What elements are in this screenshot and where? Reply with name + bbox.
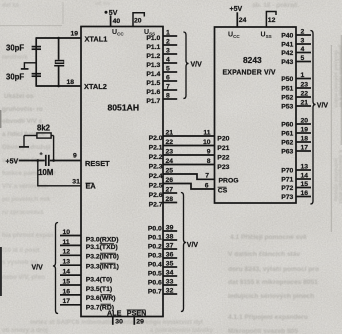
svg-text:30pF: 30pF xyxy=(6,73,24,82)
pin 27 P2.6 stub xyxy=(163,192,177,194)
svg-text:P51: P51 xyxy=(281,85,293,92)
pin 29 PSEN xyxy=(133,317,135,325)
svg-text:P60: P60 xyxy=(281,121,293,128)
svg-text:17: 17 xyxy=(63,298,71,305)
pin 36 P0.3 stub xyxy=(163,257,177,259)
svg-text:8243: 8243 xyxy=(243,55,262,65)
svg-text:ledujících sériových pinech: ledujících sériových pinech xyxy=(228,293,314,300)
svg-text:t10 i8 il posit: t10 i8 il posit xyxy=(2,247,39,254)
svg-text:doru 8243, výlačí pomocí pro: doru 8243, výlačí pomocí pro xyxy=(228,266,319,273)
pin 34 P0.5 stub xyxy=(163,275,177,277)
pin 4 P1.3 stub xyxy=(163,62,177,64)
svg-text:23: 23 xyxy=(301,82,309,89)
svg-text:16: 16 xyxy=(301,190,309,197)
svg-text:1: 1 xyxy=(301,72,305,79)
svg-text:6: 6 xyxy=(205,182,209,189)
pin 15 P72 stub xyxy=(296,187,311,189)
svg-text:9: 9 xyxy=(73,153,77,160)
svg-text:P62: P62 xyxy=(281,139,293,146)
svg-text:21: 21 xyxy=(166,129,174,136)
pin 38 P0.1 stub xyxy=(163,239,177,241)
svg-text:+5V: +5V xyxy=(230,6,243,13)
wire RESET net (U1 pin 9) xyxy=(19,160,45,162)
svg-text:23: 23 xyxy=(166,148,174,155)
svg-text:P70: P70 xyxy=(281,167,293,174)
svg-text:nevtherk: nevtherk xyxy=(2,54,28,61)
svg-text:P2.3: P2.3 xyxy=(149,164,163,171)
svg-text:3: 3 xyxy=(166,47,170,54)
svg-text:P2.4: P2.4 xyxy=(149,173,163,180)
svg-text:P3.0(RXD): P3.0(RXD) xyxy=(86,237,119,244)
svg-text:P71: P71 xyxy=(281,176,293,183)
pin 16 P73 stub xyxy=(296,196,311,198)
svg-text:jednotlivé vývody: jednotlivé vývody xyxy=(333,157,339,202)
svg-text:4: 4 xyxy=(301,46,305,53)
brace P0 port group xyxy=(181,193,186,312)
svg-text:P1.3: P1.3 xyxy=(146,62,160,69)
pin 13 P70 stub xyxy=(296,169,311,171)
svg-text:26: 26 xyxy=(166,177,174,184)
pin 18 P62 stub xyxy=(296,141,311,143)
svg-text:P0.5: P0.5 xyxy=(148,271,162,278)
svg-text:P21: P21 xyxy=(217,145,229,152)
svg-text:P3.3(INT1): P3.3(INT1) xyxy=(86,264,119,271)
svg-text:P2.0: P2.0 xyxy=(149,135,163,142)
pin 1 P50 stub xyxy=(296,78,311,80)
svg-text:2: 2 xyxy=(301,29,305,36)
ground symbol at C1/C2 junction xyxy=(24,63,36,69)
svg-text:PROG: PROG xyxy=(219,178,239,185)
svg-text:13: 13 xyxy=(63,259,71,266)
svg-text:P43: P43 xyxy=(281,59,293,66)
svg-text:38: 38 xyxy=(166,234,174,241)
svg-text:gruňovčís- ro: gruňovčís- ro xyxy=(2,106,43,113)
capacitor C3 10M xyxy=(45,155,47,166)
svg-text:P0.1: P0.1 xyxy=(148,235,162,242)
svg-text:9: 9 xyxy=(207,148,211,155)
IC U2 8243 body xyxy=(215,27,297,203)
svg-text:37: 37 xyxy=(166,243,174,250)
svg-text:nebo V/V, přen: nebo V/V, přen xyxy=(2,274,45,281)
svg-text:P3.4(T0): P3.4(T0) xyxy=(86,277,112,284)
svg-text:8: 8 xyxy=(166,92,170,99)
svg-text:P0.6: P0.6 xyxy=(148,280,162,287)
svg-text:33: 33 xyxy=(166,279,174,286)
svg-text:a pokračování tabulky: a pokračování tabulky xyxy=(150,328,214,334)
svg-text:20: 20 xyxy=(301,118,309,125)
svg-text:34: 34 xyxy=(166,270,174,277)
svg-text:ob snovy a droj: ob snovy a droj xyxy=(2,327,48,334)
svg-text:13: 13 xyxy=(301,164,309,171)
pin 22 P52 stub xyxy=(296,96,311,98)
ground symbol at R1 xyxy=(23,136,25,147)
svg-text:po povelech mik: po povelech mik xyxy=(2,196,51,203)
wire U1 P2.4 (pin 25) to U2 PROG (pin 7) xyxy=(163,174,215,179)
pin 7 P1.6 stub xyxy=(163,89,177,91)
pin 16 P3.6 stub xyxy=(60,294,81,296)
pin 35 P0.4 stub xyxy=(163,266,177,268)
ground symbol at U1 pin 20 xyxy=(133,13,144,27)
pin 39 P0.0 stub xyxy=(163,230,177,232)
pin 21 P53 stub xyxy=(296,105,311,107)
svg-text:V/V: V/V xyxy=(317,102,329,109)
svg-text:30pF: 30pF xyxy=(6,44,24,53)
svg-text:11: 11 xyxy=(63,239,70,246)
svg-text:P53: P53 xyxy=(281,103,293,110)
wire U1 P2.3 (pin 24) to U2 P23 (pin 8) xyxy=(163,164,215,166)
svg-text:28: 28 xyxy=(166,196,174,203)
svg-text:30: 30 xyxy=(115,319,123,326)
svg-text:ab. 18 - pokrač.: ab. 18 - pokrač. xyxy=(252,2,300,9)
svg-text:P0.3: P0.3 xyxy=(148,253,162,260)
svg-text:P1.1: P1.1 xyxy=(146,44,160,51)
svg-text:19: 19 xyxy=(71,31,79,38)
brace P1 port group xyxy=(183,32,188,99)
svg-text:6: 6 xyxy=(166,74,170,81)
svg-text:P2.5: P2.5 xyxy=(149,183,163,190)
svg-text:RESET: RESET xyxy=(85,159,110,168)
svg-text:P0.7: P0.7 xyxy=(148,289,162,296)
svg-text:36: 36 xyxy=(166,252,174,259)
svg-text:15: 15 xyxy=(63,278,71,285)
svg-text:Ukážel os: Ukážel os xyxy=(4,93,34,100)
wire +5V to U2 pin 24 xyxy=(236,12,238,27)
svg-text:P2.1: P2.1 xyxy=(149,145,163,152)
svg-text:2: 2 xyxy=(166,38,170,45)
svg-text:8051AH: 8051AH xyxy=(108,103,140,113)
pin 6 P1.5 stub xyxy=(163,80,177,82)
ground symbol at U2 pin 12 xyxy=(266,12,276,28)
svg-text:P72: P72 xyxy=(281,185,293,192)
svg-text:P3.6(WR): P3.6(WR) xyxy=(86,295,116,302)
svg-text:27: 27 xyxy=(166,186,174,193)
svg-text:11: 11 xyxy=(203,129,210,136)
svg-text:P61: P61 xyxy=(281,130,293,137)
svg-text:19: 19 xyxy=(301,127,309,134)
svg-text:P63: P63 xyxy=(281,148,293,155)
pin 23 P51 stub xyxy=(296,87,311,89)
pin 4 P42 stub xyxy=(296,52,311,54)
resistor R1 8k2 xyxy=(37,133,51,138)
svg-text:CS: CS xyxy=(218,188,228,195)
svg-text:10: 10 xyxy=(63,229,71,236)
svg-text:V/V: V/V xyxy=(191,61,203,68)
svg-text:XTAL1: XTAL1 xyxy=(85,35,108,44)
crystal X1 xyxy=(58,38,60,60)
pin 3 P1.2 stub xyxy=(163,53,177,55)
svg-text:10: 10 xyxy=(203,139,211,146)
svg-text:EXPANDER V/V: EXPANDER V/V xyxy=(223,70,276,77)
svg-text:P0.0: P0.0 xyxy=(148,226,162,233)
svg-text:17: 17 xyxy=(301,145,309,152)
svg-text:22: 22 xyxy=(166,139,174,146)
svg-text:12: 12 xyxy=(268,17,276,24)
svg-text:P1.2: P1.2 xyxy=(146,53,160,60)
pin 19 P61 stub xyxy=(296,132,311,134)
svg-text:21: 21 xyxy=(301,100,309,107)
pin 32 P0.7 stub xyxy=(163,293,177,295)
capacitor C1 30pF xyxy=(32,46,41,48)
pin 5 P43 stub xyxy=(296,61,311,63)
wire XTAL2 net (U1 pin 18) xyxy=(36,85,82,87)
wire EA net to +5V (U1 pin 31) xyxy=(38,161,81,186)
svg-text:14: 14 xyxy=(301,173,309,180)
pin 12 P3.2 stub xyxy=(60,254,81,256)
svg-text:7: 7 xyxy=(205,172,209,179)
svg-text:5: 5 xyxy=(301,55,305,62)
brace P3 port group xyxy=(53,223,58,314)
svg-text:15: 15 xyxy=(301,181,309,188)
pin 2 P40 stub xyxy=(296,34,311,36)
svg-text:P1.4: P1.4 xyxy=(146,71,160,78)
svg-text:P40: P40 xyxy=(281,32,293,39)
svg-text:P1.5: P1.5 xyxy=(146,80,160,87)
svg-text:24: 24 xyxy=(166,158,174,165)
pin 33 P0.6 stub xyxy=(163,284,177,286)
svg-text:P42: P42 xyxy=(281,50,293,57)
svg-text:16: 16 xyxy=(63,288,71,295)
svg-text:P52: P52 xyxy=(281,94,293,101)
svg-text:del ká: del ká xyxy=(2,3,20,9)
svg-text:14: 14 xyxy=(63,269,71,276)
pin 11 P3.1 stub xyxy=(60,244,81,246)
svg-text:10M: 10M xyxy=(38,168,53,177)
svg-text:P1.7: P1.7 xyxy=(146,98,160,105)
svg-text:5: 5 xyxy=(166,65,170,72)
pin 5 P1.4 stub xyxy=(163,71,177,73)
svg-text:V/V: V/V xyxy=(32,264,44,271)
svg-text:39: 39 xyxy=(166,225,174,232)
IC U1 8051AH body xyxy=(81,27,163,317)
svg-text:V/V: V/V xyxy=(187,242,199,249)
wire U1 P2.1 (pin 22) to U2 P21 (pin 10) xyxy=(163,145,215,147)
wire U1 P2.2 (pin 23) to U2 P22 (pin 9) xyxy=(163,154,215,156)
svg-text:P2.6: P2.6 xyxy=(149,192,163,199)
svg-text:V dalších článcích stáv: V dalších článcích stáv xyxy=(228,251,301,258)
svg-text:32: 32 xyxy=(166,288,174,295)
svg-text:ru zpracovává: ru zpracovává xyxy=(2,209,44,216)
pin 1 P1.0 stub xyxy=(163,35,177,37)
svg-text:7: 7 xyxy=(166,83,170,90)
wire capacitor branch xyxy=(35,38,37,86)
svg-text:P73: P73 xyxy=(281,194,293,201)
svg-text:+5V: +5V xyxy=(6,159,19,166)
wire U1 P2.0 (pin 21) to U2 P20 (pin 11) xyxy=(163,135,215,137)
svg-text:P0.2: P0.2 xyxy=(148,244,162,251)
svg-text:40: 40 xyxy=(113,18,121,25)
svg-text:3: 3 xyxy=(301,38,305,45)
wire XTAL1 net (U1 pin 19) xyxy=(36,37,82,39)
pin 17 P63 stub xyxy=(296,150,311,152)
svg-text:20: 20 xyxy=(134,17,142,24)
pin 10 P3.0 stub xyxy=(60,235,81,237)
pin 15 P3.5 stub xyxy=(60,284,81,286)
pin 3 P41 stub xyxy=(296,43,311,45)
svg-text:8: 8 xyxy=(207,158,211,165)
svg-text:4: 4 xyxy=(166,56,170,63)
svg-text:Mikropočít svazeb 805: Mikropočít svazeb 805 xyxy=(228,328,298,334)
svg-text:35: 35 xyxy=(166,261,174,268)
capacitor C2 30pF xyxy=(32,73,41,75)
pin 37 P0.2 stub xyxy=(163,248,177,250)
svg-text:1: 1 xyxy=(166,29,170,36)
svg-text:P23: P23 xyxy=(217,164,229,171)
svg-text:P2.7: P2.7 xyxy=(149,202,163,209)
brace U2 ports group xyxy=(310,31,315,205)
pin 30 ALE xyxy=(112,317,114,325)
svg-text:P1.0: P1.0 xyxy=(146,35,160,42)
svg-text:25: 25 xyxy=(166,167,174,174)
pin 2 P1.1 stub xyxy=(163,44,177,46)
svg-text:31: 31 xyxy=(72,179,80,186)
svg-text:P3.1(TXD): P3.1(TXD) xyxy=(86,244,118,251)
svg-text:22: 22 xyxy=(301,91,309,98)
svg-text:XTAL2: XTAL2 xyxy=(84,82,107,91)
svg-text:4.1 Přičlejí pomocné svě: 4.1 Přičlejí pomocné svě xyxy=(230,234,307,241)
svg-text:18: 18 xyxy=(67,79,75,86)
pin 8 P1.7 stub xyxy=(163,98,177,100)
svg-text:P41: P41 xyxy=(281,41,293,48)
svg-text:P2.2: P2.2 xyxy=(149,154,163,161)
svg-text:18: 18 xyxy=(301,136,309,143)
pin 13 P3.3 stub xyxy=(60,264,81,266)
wire +5V to U1 pin 40 xyxy=(110,16,112,28)
svg-text:P0.4: P0.4 xyxy=(148,262,162,269)
wire U1 P2.5 (pin 26) to U2 CS (pin 6) xyxy=(163,184,215,190)
svg-text:uč os: uč os xyxy=(95,1,110,7)
pin 28 P2.7 stub xyxy=(163,202,177,204)
svg-text:P20: P20 xyxy=(217,135,229,142)
svg-text:12: 12 xyxy=(63,249,71,256)
svg-text:P3.2(INT0): P3.2(INT0) xyxy=(86,254,119,261)
svg-text:deskové sběrnici mikro: deskové sběrnici mikro xyxy=(333,50,339,108)
pin 17 P3.7 stub xyxy=(60,304,81,306)
svg-text:29: 29 xyxy=(136,319,144,326)
+5V supply node at U1 pin 40 xyxy=(105,11,108,14)
svg-text:ALE: ALE xyxy=(107,308,122,317)
svg-text:8k2: 8k2 xyxy=(37,124,51,133)
pin 20 P60 stub xyxy=(296,123,311,125)
svg-text:dat 8155 k mikroproces 8051: dat 8155 k mikroproces 8051 xyxy=(228,279,318,286)
pin 14 P3.4 stub xyxy=(60,274,81,276)
svg-text:P3.5(T1): P3.5(T1) xyxy=(86,286,112,293)
svg-text:P1.6: P1.6 xyxy=(146,89,160,96)
svg-text:P22: P22 xyxy=(217,154,229,161)
svg-text:hla phrinnt expan: hla phrinnt expan xyxy=(2,232,54,239)
svg-text:4.1.1 Připojení expanderu: 4.1.1 Připojení expanderu xyxy=(228,314,308,321)
svg-text:24: 24 xyxy=(239,17,247,24)
svg-text:P50: P50 xyxy=(281,76,293,83)
pin 14 P71 stub xyxy=(296,178,311,180)
svg-text:+: + xyxy=(40,152,43,158)
